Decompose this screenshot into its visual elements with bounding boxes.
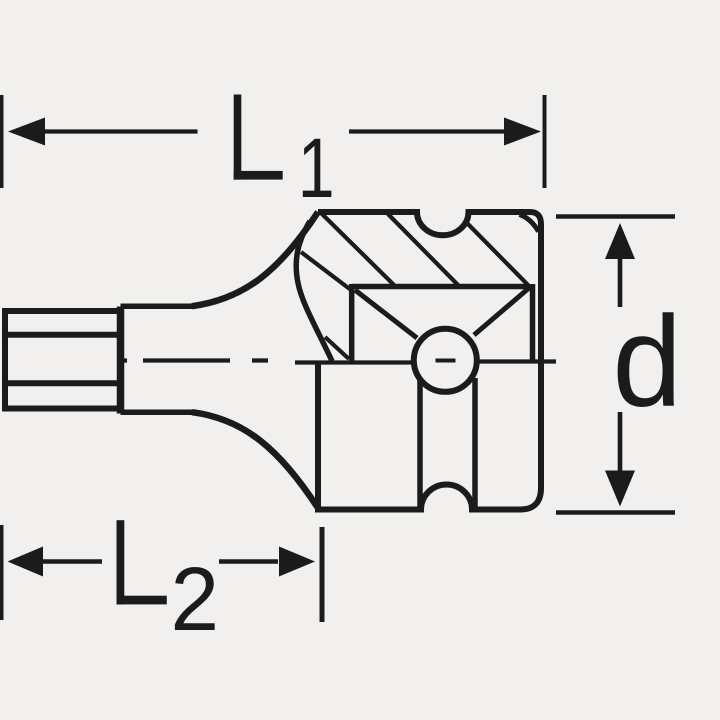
dimension L1 extension line left [0,95,4,188]
square drive hole top edge [352,284,530,290]
hatch lines [301,213,528,359]
dimension d extension line top [556,214,675,219]
square drive hole right edge [530,284,536,361]
square drive hole left edge [349,284,355,361]
ball groove vertical right [472,378,478,507]
ball center dash [436,359,456,363]
bit collar vertical [117,307,125,414]
vee diagonal left [355,290,417,338]
shank bottom line [121,409,194,415]
socket body outline [318,212,541,510]
hex bit end [3,308,121,411]
label L1 [234,95,335,216]
dimension d line with arrows [605,223,635,507]
chamfer arc top right corner [520,215,539,232]
neck section inner curve [296,221,332,361]
centerline dash-dot [119,361,556,363]
label L2 [117,520,220,649]
neck lower curve [192,412,318,508]
vee diagonal right [474,288,529,335]
dimension L1 extension line right [543,95,547,188]
dimension d extension line bottom [556,510,675,515]
dimension L2 extension line left [0,525,4,620]
dimension L2 extension line right [320,527,325,622]
svg-text:d: d [612,289,682,433]
svg-text:1: 1 [298,122,335,216]
ball detent circle [414,329,477,392]
ball groove vertical left [417,378,423,507]
svg-text:2: 2 [171,549,220,649]
shank top line [121,303,194,309]
dimension L1 line with arrows [8,118,541,146]
neck upper curve [192,212,318,306]
label d [612,289,682,433]
dimension L2 line with arrows [8,547,316,577]
